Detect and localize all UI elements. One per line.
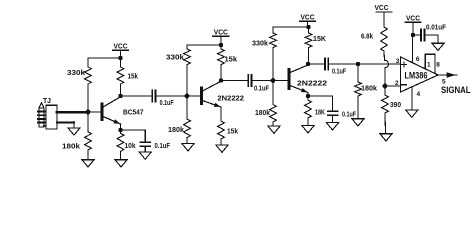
node stage1 base (86, 110, 91, 115)
svg-text:0.1uF: 0.1uF (155, 141, 171, 150)
svg-text:VCC: VCC (301, 13, 315, 22)
pin 4 stem (411, 87, 413, 110)
capacitor 0.1uF (stage1 emitter bypass) (140, 130, 150, 152)
resistor 180k (stage3 base lower) (270, 81, 277, 127)
svg-text:TJ: TJ (43, 96, 51, 105)
node stage2 base (185, 94, 190, 99)
svg-text:8: 8 (436, 62, 440, 69)
ground bypass cap stage1 (139, 152, 151, 159)
resistor 330k (stage3 base pull-up) (270, 27, 277, 81)
svg-text:330k: 330k (67, 68, 86, 77)
wire jack tip to base node (thick) (57, 111, 86, 114)
ground 180k stage2 (182, 144, 194, 151)
wire base node to Q2 (187, 95, 201, 97)
ground stage2 emitter (216, 145, 228, 152)
node stage1 rail junction (118, 56, 122, 60)
ground jack sleeve (68, 128, 80, 135)
svg-text:SIGNAL: SIGNAL (441, 85, 471, 95)
svg-text:6: 6 (416, 56, 420, 63)
wire output pin 5 (438, 74, 457, 76)
ground 18K (302, 126, 314, 133)
transistor Q3 2N2222 (289, 65, 308, 93)
resistor 390 (382, 86, 389, 134)
power VCC (stage 1) (113, 42, 129, 59)
svg-text:180k: 180k (62, 142, 81, 151)
svg-text:180k: 180k (361, 84, 378, 93)
ground 180k stage3 (268, 126, 280, 133)
wire pin2 (385, 85, 401, 87)
resistor 180k (amp input bias) (355, 64, 362, 119)
node stage3 rail junction (306, 25, 310, 29)
svg-text:4: 4 (417, 91, 421, 98)
wire stage1 collector to coupling cap (121, 95, 152, 97)
op-amp U1 LM386 (401, 57, 439, 92)
capacitor 0.1uF (coupling 3-amp) (325, 58, 328, 70)
wire hop over pin3 wire (384, 60, 388, 68)
wire to supply bypass cap (413, 34, 421, 36)
svg-text:0.1uF: 0.1uF (342, 110, 356, 119)
svg-text:0.1uF: 0.1uF (160, 98, 174, 107)
svg-text:2N2222: 2N2222 (217, 93, 244, 102)
wire Q1 emitter down (120, 124, 122, 130)
svg-text:6.8k: 6.8k (361, 32, 374, 41)
ground LM386 pin4 (406, 110, 418, 117)
resistor 330k (stage2 base pull-up) (184, 45, 191, 96)
svg-text:180k: 180k (255, 108, 271, 117)
svg-text:15k: 15k (128, 72, 139, 81)
svg-text:0.01uF: 0.01uF (426, 23, 446, 32)
resistor 180k (stage1 base lower) (85, 112, 92, 160)
resistor 330k (stage1 base pull-up) (85, 58, 92, 112)
resistor 10k (stage1 emitter) (117, 130, 124, 160)
connector TJ microphone jack (38, 103, 57, 129)
wire emitter to bypass cap (121, 129, 146, 131)
power VCC (stage 3) (300, 13, 316, 28)
node stage3 emitter (306, 94, 310, 98)
wire Q3 emitter down (307, 93, 309, 97)
ground 180k amp input (352, 119, 364, 126)
wire 6.8k to pin2 node (384, 68, 386, 87)
transistor Q1 BC547 (102, 97, 121, 124)
minus input mark (402, 84, 407, 86)
wire emitter to bypass cap stage3 (308, 95, 333, 97)
power VCC (stage 2) (213, 28, 229, 46)
svg-text:180k: 180k (168, 125, 185, 134)
svg-text:LM386: LM386 (405, 70, 428, 80)
ground supply bypass (432, 43, 444, 50)
capacitor 0.1uF (coupling 1-2) (152, 90, 155, 102)
wire coupling cap to stage2 base (156, 95, 187, 97)
svg-text:390: 390 (390, 100, 401, 109)
wire coupling cap to LM386 input (329, 63, 401, 65)
resistor 15k (stage2 collector) (218, 45, 225, 81)
power VCC (LM386 pin 6) (405, 14, 421, 36)
svg-text:1: 1 (427, 62, 431, 69)
node stage3 base (271, 78, 276, 83)
resistor 15k (stage2 emitter) (218, 107, 225, 145)
svg-text:2: 2 (395, 80, 399, 87)
svg-text:VCC: VCC (114, 42, 128, 51)
svg-text:VCC: VCC (375, 3, 389, 12)
svg-text:330k: 330k (166, 53, 185, 62)
wire stage2 collector to coupling cap (221, 80, 247, 82)
wire base node to Q3 (273, 80, 288, 82)
node amp input (356, 62, 360, 66)
svg-text:0.1uF: 0.1uF (254, 84, 269, 93)
svg-text:330k: 330k (252, 39, 269, 48)
resistor 15K (stage3 collector) (305, 27, 312, 64)
resistor 180k (stage2 base lower) (184, 96, 191, 144)
svg-text:15k: 15k (227, 127, 239, 136)
node stage1 collector (118, 94, 122, 98)
node stage1 emitter (118, 128, 122, 132)
wire bypass cap to ground (424, 34, 438, 36)
ground 180k stage1 (82, 160, 94, 167)
node stage2 rail junction (219, 43, 223, 47)
svg-text:VCC: VCC (214, 28, 228, 37)
wire stage3 collector to coupling cap (308, 63, 324, 65)
svg-text:10k: 10k (125, 141, 137, 150)
resistor 18K (stage3 emitter) (305, 96, 312, 126)
ground 10k (115, 160, 127, 167)
node stage3 collector (306, 62, 310, 66)
svg-text:3: 3 (396, 58, 400, 65)
plus input mark (402, 64, 407, 66)
node pin2 (383, 84, 388, 89)
output arrow (447, 72, 456, 78)
node stage2 collector (219, 78, 223, 82)
svg-text:BC547: BC547 (123, 108, 144, 117)
ground stage3 bypass cap (326, 123, 338, 130)
capacitor 0.1uF (stage3 emitter bypass) (328, 96, 338, 123)
svg-text:0.1uF: 0.1uF (332, 67, 346, 76)
transistor Q2 2N2222 (202, 81, 222, 107)
resistor 15k (stage1 collector) (117, 58, 124, 96)
pins 1-8 gain strap (425, 54, 435, 73)
wire stage3 VCC rail (273, 26, 309, 28)
wire jack sleeve (57, 121, 74, 123)
svg-text:VCC: VCC (406, 14, 420, 23)
wire coupling cap to stage3 base (252, 80, 273, 82)
node pin6/bypass (411, 33, 415, 37)
wire stage2 VCC rail (187, 44, 221, 46)
svg-text:15K: 15K (313, 34, 327, 43)
svg-text:15k: 15k (225, 55, 238, 64)
wire stage1 VCC rail (88, 57, 121, 59)
capacitor 0.1uF (coupling 2-3) (248, 75, 251, 87)
resistor 6.8k (381, 14, 388, 61)
capacitor 0.01uF (supply bypass) (421, 30, 424, 41)
ground 390 (380, 134, 392, 141)
pin 6 stem (411, 35, 413, 63)
svg-text:2N2222: 2N2222 (297, 79, 327, 88)
wire base node to Q1 (88, 111, 101, 113)
svg-text:18K: 18K (315, 108, 325, 117)
power VCC (6.8k feed) (375, 3, 393, 14)
